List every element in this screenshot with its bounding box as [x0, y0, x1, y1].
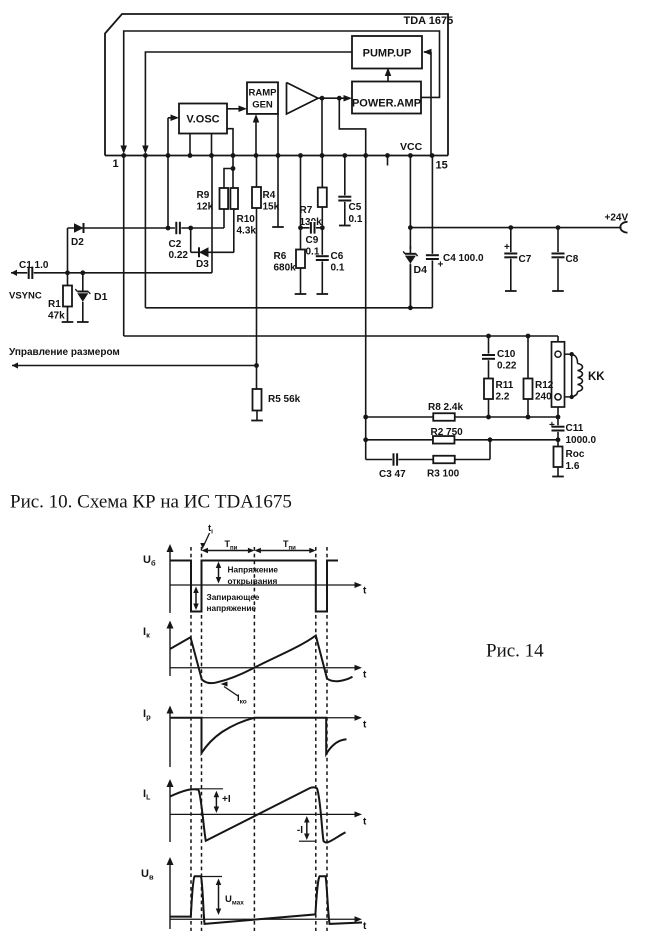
svg-text:0.1: 0.1	[306, 247, 320, 258]
svg-text:1: 1	[113, 158, 119, 170]
svg-text:Рис. 10. Схема КР на ИС TDA167: Рис. 10. Схема КР на ИС TDA1675	[10, 492, 292, 513]
svg-text:2.2: 2.2	[496, 392, 510, 403]
svg-text:C11: C11	[566, 423, 584, 434]
svg-text:t: t	[363, 817, 367, 828]
svg-text:t: t	[363, 720, 367, 731]
svg-text:PUMP.UP: PUMP.UP	[363, 48, 412, 60]
svg-text:0.22: 0.22	[169, 250, 189, 261]
svg-text:47k: 47k	[48, 311, 65, 322]
svg-text:R11: R11	[496, 380, 514, 391]
svg-text:Iк: Iк	[143, 626, 150, 640]
svg-text:напряжение: напряжение	[207, 603, 257, 613]
svg-text:C1 1.0: C1 1.0	[19, 260, 49, 271]
svg-text:D2: D2	[71, 237, 84, 248]
svg-text:Запирающее: Запирающее	[207, 592, 260, 602]
svg-text:RAMP: RAMP	[249, 88, 278, 99]
svg-text:+: +	[549, 420, 555, 431]
svg-text:C4 100.0: C4 100.0	[443, 253, 484, 264]
svg-text:0.1: 0.1	[331, 263, 345, 274]
svg-text:GEN: GEN	[252, 100, 273, 111]
svg-text:C10: C10	[497, 349, 516, 360]
svg-text:1000.0: 1000.0	[566, 435, 597, 446]
svg-text:VCC: VCC	[400, 141, 423, 153]
svg-text:t: t	[363, 670, 367, 681]
svg-text:C8: C8	[566, 254, 579, 265]
svg-text:R4: R4	[263, 190, 276, 201]
svg-text:открывания: открывания	[228, 576, 278, 586]
svg-text:R9: R9	[197, 190, 210, 201]
svg-text:Iр: Iр	[143, 708, 151, 722]
svg-text:t: t	[363, 921, 367, 932]
svg-text:680k: 680k	[274, 263, 297, 274]
svg-text:D4: D4	[414, 264, 428, 276]
svg-text:KK: KK	[588, 371, 605, 383]
svg-text:R7: R7	[300, 205, 313, 216]
svg-text:4.3k: 4.3k	[237, 226, 257, 237]
svg-text:0.1: 0.1	[349, 214, 363, 225]
svg-text:Uб: Uб	[143, 554, 156, 568]
svg-text:+24V: +24V	[605, 213, 629, 224]
svg-text:1.6: 1.6	[566, 461, 580, 472]
svg-text:C9: C9	[306, 235, 319, 246]
svg-text:12k: 12k	[197, 202, 214, 213]
svg-text:Напряжение: Напряжение	[228, 565, 279, 575]
svg-text:IL: IL	[143, 788, 151, 802]
svg-text:-I: -I	[297, 825, 303, 836]
svg-text:POWER.AMP: POWER.AMP	[352, 98, 421, 110]
svg-text:Iко: Iко	[237, 693, 247, 706]
svg-text:R6: R6	[274, 251, 287, 262]
svg-text:+: +	[504, 242, 510, 253]
svg-text:0.22: 0.22	[497, 361, 517, 372]
svg-text:R12: R12	[535, 380, 554, 391]
svg-text:C2: C2	[169, 239, 182, 250]
svg-text:Uмах: Uмах	[225, 894, 244, 907]
svg-text:Тпи: Тпи	[283, 539, 296, 552]
svg-text:240: 240	[535, 392, 552, 403]
svg-text:VSYNC: VSYNC	[9, 291, 42, 302]
svg-text:C5: C5	[349, 202, 362, 213]
svg-text:R5 56k: R5 56k	[268, 394, 301, 405]
svg-text:TDA 1675: TDA 1675	[404, 15, 454, 27]
svg-text:Roc: Roc	[566, 449, 585, 460]
svg-text:R3 100: R3 100	[427, 469, 460, 480]
svg-text:R2 750: R2 750	[431, 427, 464, 438]
svg-text:Тпи: Тпи	[225, 539, 238, 552]
svg-text:15k: 15k	[263, 202, 280, 213]
svg-text:D1: D1	[94, 291, 108, 303]
svg-text:Рис. 14: Рис. 14	[486, 641, 544, 662]
svg-text:D3: D3	[196, 259, 209, 270]
svg-text:Управление размером: Управление размером	[9, 347, 120, 358]
svg-text:R8 2.4k: R8 2.4k	[428, 402, 463, 413]
svg-text:+I: +I	[222, 794, 231, 805]
svg-text:15: 15	[436, 160, 448, 172]
svg-text:R10: R10	[237, 214, 256, 225]
svg-text:C3 47: C3 47	[379, 469, 406, 480]
svg-text:Uв: Uв	[141, 868, 154, 882]
svg-text:C6: C6	[331, 251, 344, 262]
svg-text:C7: C7	[519, 254, 532, 265]
svg-text:V.OSC: V.OSC	[186, 114, 219, 126]
svg-text:t: t	[363, 586, 367, 597]
svg-text:R1: R1	[48, 299, 61, 310]
